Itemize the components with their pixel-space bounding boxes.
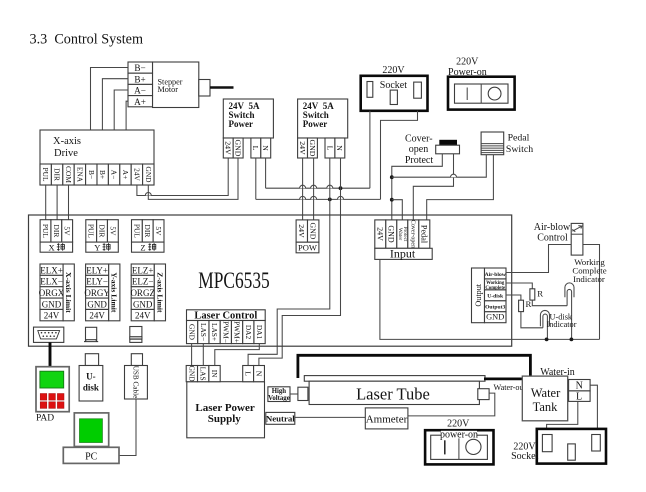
MPC power terminal 24V bbox=[296, 220, 307, 242]
wire high voltage to laser tube bbox=[290, 393, 298, 395]
MPC Z-axis limit terminal group bbox=[130, 264, 165, 321]
air-blow control label bbox=[534, 222, 571, 244]
USB cable connector stub bbox=[131, 354, 142, 366]
svg-text:A−: A− bbox=[110, 170, 119, 180]
svg-text:Ammeter: Ammeter bbox=[366, 413, 408, 425]
input terminal 24V bbox=[375, 220, 386, 248]
svg-text:POW: POW bbox=[298, 243, 317, 253]
laser control terminal DA2 bbox=[243, 321, 254, 344]
220V socket top bbox=[361, 65, 428, 111]
svg-text:ELX−: ELX− bbox=[40, 277, 63, 287]
wire switch2 24V to MPC POW bbox=[302, 158, 304, 220]
drive terminal COM bbox=[63, 164, 74, 185]
svg-text:N: N bbox=[254, 371, 263, 377]
svg-text:B+: B+ bbox=[134, 74, 145, 84]
wire pedal left to GND bus bbox=[392, 155, 487, 178]
output terminal Working Complete bbox=[485, 279, 507, 291]
MPC power group label POW bbox=[296, 242, 319, 253]
svg-text:GND: GND bbox=[308, 140, 317, 157]
X-axis drive box bbox=[40, 130, 154, 185]
resistor R1 bbox=[530, 288, 543, 300]
svg-text:GND: GND bbox=[309, 223, 318, 240]
output terminal Air-blow bbox=[485, 268, 507, 279]
svg-text:R: R bbox=[537, 288, 543, 298]
svg-text:GND: GND bbox=[144, 166, 153, 183]
wire laser control GND to supply bbox=[191, 344, 193, 366]
wire USB cable to PC bbox=[119, 399, 136, 456]
wire cover switch left to GND bus bbox=[392, 154, 443, 220]
drive terminal GND bbox=[143, 164, 154, 185]
laser tube top cap bbox=[304, 376, 485, 382]
air-blow valve bbox=[571, 223, 583, 255]
svg-text:ELY+: ELY+ bbox=[86, 265, 108, 275]
svg-text:Water-in: Water-in bbox=[540, 367, 575, 378]
svg-text:DIR: DIR bbox=[98, 225, 107, 238]
wire output working-complete to R1 bbox=[506, 283, 532, 289]
MPC USB port icon bbox=[130, 327, 142, 343]
switch power U3 box bbox=[298, 99, 348, 138]
svg-text:24V: 24V bbox=[298, 141, 307, 155]
svg-text:GND: GND bbox=[133, 299, 153, 309]
svg-text:ORGY: ORGY bbox=[84, 288, 110, 298]
wire R2 to lamp HL2 bbox=[521, 312, 543, 328]
svg-text:24V: 24V bbox=[135, 311, 151, 321]
laser control terminal DA1 bbox=[254, 321, 265, 344]
drive terminal A- bbox=[108, 164, 119, 185]
input terminal Pedal bbox=[419, 220, 430, 248]
wire R1 to lamp HL1 bbox=[532, 300, 567, 306]
MPC Y-axis terminal PUL bbox=[86, 220, 97, 242]
wire N bus bbox=[266, 185, 370, 188]
laser control title box bbox=[187, 310, 266, 322]
svg-text:DA2: DA2 bbox=[244, 325, 253, 340]
svg-text:ENA: ENA bbox=[75, 167, 84, 183]
bottom socket label bbox=[511, 441, 538, 462]
svg-text:IN: IN bbox=[210, 370, 219, 378]
svg-text:PUL: PUL bbox=[41, 168, 50, 182]
svg-text:U-: U- bbox=[86, 372, 96, 382]
svg-text:24V: 24V bbox=[376, 227, 385, 241]
svg-text:PWM+: PWM+ bbox=[233, 321, 242, 343]
laser power supply box bbox=[187, 382, 265, 438]
wire anode to ammeter bbox=[408, 393, 495, 416]
MPC Z-axis group label bbox=[132, 242, 165, 252]
svg-text:LAS−: LAS− bbox=[199, 323, 208, 341]
svg-text:USB Cable: USB Cable bbox=[131, 366, 139, 399]
svg-text:24V: 24V bbox=[89, 311, 105, 321]
switch power U3 terminal L bbox=[325, 138, 335, 158]
MPC Z-axis terminal 5V bbox=[153, 220, 164, 242]
svg-text:B−: B− bbox=[87, 170, 96, 179]
switch power U2 box bbox=[223, 99, 273, 138]
svg-text:220V: 220V bbox=[447, 419, 470, 430]
input terminal Cover-open bbox=[408, 220, 419, 248]
drive terminal B+ bbox=[97, 164, 108, 185]
working complete indicator label bbox=[572, 257, 606, 284]
MPC Z-axis terminal DIR bbox=[142, 220, 153, 242]
u-disk indicator label bbox=[547, 312, 577, 329]
MPC6535 label bbox=[198, 269, 269, 294]
MPC DB9 PAD port bbox=[34, 327, 64, 342]
wire laser control LAS- to supply bbox=[202, 344, 204, 366]
svg-text:Air-blow: Air-blow bbox=[485, 272, 507, 278]
wire output air-blow to valve line bbox=[506, 245, 600, 340]
water-in label bbox=[540, 367, 575, 378]
svg-text:24V: 24V bbox=[44, 311, 60, 321]
svg-text:24V: 24V bbox=[297, 224, 306, 238]
svg-text:Control: Control bbox=[537, 233, 568, 244]
svg-text:Pedal: Pedal bbox=[420, 225, 429, 244]
laser tube anode connector bbox=[478, 389, 489, 400]
220V power-on switch top bbox=[448, 56, 515, 109]
drive terminal B- bbox=[86, 164, 97, 185]
svg-text:220V: 220V bbox=[382, 65, 405, 76]
svg-text:X-axis Limit: X-axis Limit bbox=[64, 272, 73, 313]
wire L bus bbox=[256, 196, 381, 199]
svg-text:GND: GND bbox=[187, 366, 196, 383]
wire stepper A+ to drive bbox=[126, 101, 128, 164]
laser control terminal LAS- bbox=[198, 321, 209, 344]
svg-text:N: N bbox=[261, 145, 270, 151]
bottom power-on label bbox=[447, 419, 470, 430]
laser control terminal GND bbox=[187, 321, 198, 344]
wire tank L to socket bbox=[547, 401, 578, 434]
wire indicator 24V bus bbox=[380, 259, 600, 339]
wire laser control DA1 to supply IN bbox=[215, 344, 259, 366]
svg-text:DIR: DIR bbox=[53, 168, 62, 181]
switch power U2 terminal 24V bbox=[223, 138, 233, 158]
svg-text:U-disk: U-disk bbox=[487, 294, 504, 300]
svg-text:ORGX: ORGX bbox=[39, 288, 65, 298]
svg-text:5V: 5V bbox=[154, 226, 163, 236]
wire stepper B+ to drive bbox=[102, 79, 128, 164]
svg-text:ELY−: ELY− bbox=[86, 277, 108, 287]
wire socket right pin to L bus bbox=[381, 111, 418, 200]
svg-text:N: N bbox=[576, 380, 583, 391]
svg-text:open: open bbox=[409, 144, 428, 155]
USB cable box bbox=[125, 366, 148, 400]
water pipe bracket bbox=[298, 355, 531, 378]
wire switch1 L to L bus bbox=[255, 158, 257, 199]
svg-text:24V: 24V bbox=[224, 141, 233, 155]
laser control terminal PWM- bbox=[220, 321, 231, 344]
svg-text:Water-out: Water-out bbox=[494, 383, 527, 392]
svg-text:3.3 Control System: 3.3 Control System bbox=[30, 32, 144, 48]
svg-text:Power: Power bbox=[303, 119, 328, 129]
svg-text:Laser Power: Laser Power bbox=[195, 402, 254, 414]
svg-text:PUL: PUL bbox=[41, 224, 50, 238]
svg-text:GND: GND bbox=[234, 140, 243, 157]
MPC X-axis terminal 5V bbox=[62, 220, 73, 242]
wire switch1 N to N bus bbox=[265, 158, 267, 188]
svg-text:Output: Output bbox=[474, 283, 483, 306]
neutral box bbox=[266, 412, 295, 424]
wire drive COM to MPC bbox=[68, 185, 70, 220]
indicator lamp HL2 bbox=[540, 310, 549, 339]
switch power U2 terminal L bbox=[251, 138, 261, 158]
svg-text:Z: Z bbox=[140, 242, 145, 252]
drive terminal DIR bbox=[51, 164, 62, 185]
wire neutral to ammeter bbox=[295, 416, 366, 418]
indicator lamp HL1 bbox=[565, 283, 574, 340]
stepper terminal B- bbox=[128, 62, 153, 73]
laser supply terminal LAS bbox=[198, 366, 209, 382]
svg-text:Drive: Drive bbox=[54, 148, 78, 159]
svg-text:A−: A− bbox=[134, 86, 146, 96]
svg-text:ELX+: ELX+ bbox=[40, 265, 63, 275]
wire tank N to socket bbox=[590, 385, 597, 434]
svg-text:DA1: DA1 bbox=[255, 325, 264, 340]
svg-text:L: L bbox=[576, 392, 582, 403]
svg-text:Neutral: Neutral bbox=[266, 413, 295, 423]
svg-text:B−: B− bbox=[134, 63, 145, 73]
svg-text:X-axis: X-axis bbox=[53, 136, 81, 147]
output terminal U-disk bbox=[485, 290, 507, 301]
junction L bus / switch2 L bbox=[328, 198, 332, 202]
junction GND bus upper bbox=[390, 175, 394, 179]
PAD handheld controller bbox=[36, 367, 69, 412]
svg-text:R: R bbox=[526, 299, 532, 309]
wire GND bus to water-protect input bbox=[392, 200, 403, 220]
svg-text:Laser Control: Laser Control bbox=[194, 311, 257, 322]
svg-text:L: L bbox=[251, 146, 260, 151]
laser tube body bbox=[309, 381, 479, 404]
MPC power terminal GND bbox=[308, 220, 319, 242]
switch power U2 terminal GND bbox=[233, 138, 243, 158]
svg-text:Protect: Protect bbox=[405, 155, 434, 166]
laser control terminal LAS+ bbox=[209, 321, 220, 344]
svg-text:GND: GND bbox=[87, 299, 107, 309]
drive terminal 24V bbox=[131, 164, 142, 185]
svg-text:PAD: PAD bbox=[36, 413, 54, 423]
MPC monitor port icon bbox=[84, 327, 98, 341]
svg-text:ELZ+: ELZ+ bbox=[132, 265, 154, 275]
wire drive DIR to MPC bbox=[56, 185, 58, 220]
svg-text:power-on: power-on bbox=[440, 430, 478, 441]
wire MPC DB9 to PAD cable bbox=[49, 342, 52, 366]
svg-text:Voltage: Voltage bbox=[268, 395, 290, 402]
PC monitor bbox=[74, 413, 108, 447]
drive terminal PUL bbox=[40, 164, 51, 185]
svg-text:220V: 220V bbox=[456, 56, 479, 67]
laser supply terminal IN bbox=[209, 366, 220, 382]
220V power-on switch bottom bbox=[425, 430, 493, 464]
svg-text:disk: disk bbox=[83, 383, 99, 393]
PC base bbox=[63, 447, 119, 463]
wire output U-disk to R2 bbox=[506, 295, 521, 300]
water tank terminal L bbox=[569, 391, 591, 403]
svg-text:DIR: DIR bbox=[52, 225, 61, 238]
stepper terminal A- bbox=[128, 84, 153, 95]
MPC X-axis group label bbox=[40, 242, 73, 252]
switch power U3 terminal N bbox=[335, 138, 345, 158]
water tank box bbox=[522, 376, 567, 421]
svg-text:N: N bbox=[335, 145, 344, 151]
junction lamp HL2 on bus bbox=[545, 338, 549, 342]
water tank terminal N bbox=[569, 380, 591, 392]
svg-text:PUL: PUL bbox=[132, 224, 141, 238]
svg-text:ORGZ: ORGZ bbox=[130, 288, 155, 298]
MPC Y-axis terminal DIR bbox=[97, 220, 108, 242]
svg-text:High: High bbox=[272, 388, 287, 395]
cover-open protect label bbox=[405, 134, 434, 167]
svg-text:MPC6535: MPC6535 bbox=[198, 269, 269, 294]
laser control terminal PWM+ bbox=[231, 321, 242, 344]
svg-text:Motor: Motor bbox=[158, 85, 179, 94]
output group label bbox=[472, 268, 485, 323]
U-disk connector stub bbox=[85, 354, 98, 366]
ammeter box bbox=[365, 408, 408, 429]
svg-text:Water: Water bbox=[531, 386, 561, 400]
svg-text:Protect: Protect bbox=[402, 227, 408, 242]
stepper motor body bbox=[153, 62, 199, 108]
220V socket bottom bbox=[537, 429, 606, 464]
wire drive GND to switch power 1 bbox=[148, 158, 238, 199]
svg-text:L: L bbox=[243, 371, 252, 376]
wire stepper A- to drive bbox=[114, 90, 128, 164]
svg-text:Power: Power bbox=[229, 119, 254, 129]
svg-text:Laser Tube: Laser Tube bbox=[356, 384, 430, 403]
resistor R2 bbox=[519, 299, 532, 311]
drive terminal A+ bbox=[120, 164, 131, 185]
svg-text:GND: GND bbox=[188, 324, 197, 341]
svg-text:Output3: Output3 bbox=[485, 305, 505, 311]
svg-text:Supply: Supply bbox=[208, 413, 242, 425]
switch power U3 terminal GND bbox=[308, 138, 318, 158]
wire drive PUL to MPC bbox=[45, 185, 47, 220]
svg-text:PC: PC bbox=[85, 452, 98, 463]
svg-text:A+: A+ bbox=[134, 97, 146, 107]
svg-text:Input: Input bbox=[390, 247, 416, 261]
svg-text:Socket: Socket bbox=[380, 80, 407, 91]
wire socket left pin to N bus bbox=[369, 111, 371, 188]
drive terminal ENA bbox=[74, 164, 85, 185]
svg-text:GND: GND bbox=[42, 299, 62, 309]
title text bbox=[30, 32, 144, 48]
MPC Y-axis limit terminal group bbox=[84, 264, 120, 321]
cover-open switch bbox=[436, 140, 460, 154]
input terminal Water Protect bbox=[397, 220, 408, 248]
svg-text:24V: 24V bbox=[132, 168, 141, 181]
laser supply terminal GND bbox=[186, 366, 197, 383]
svg-text:LAS: LAS bbox=[199, 367, 208, 381]
svg-text:Y: Y bbox=[94, 242, 100, 252]
junction lamp HL1 on bus bbox=[570, 338, 574, 342]
MPC X-axis terminal DIR bbox=[51, 220, 62, 242]
svg-text:Z-axis Limit: Z-axis Limit bbox=[155, 272, 164, 313]
svg-text:GND: GND bbox=[387, 225, 396, 243]
wire drive 24V to switch power 1 bbox=[137, 158, 228, 196]
output terminal GND bbox=[485, 312, 507, 323]
bottom power-on text bbox=[440, 430, 478, 441]
wire switch2 N to laser supply N bbox=[259, 158, 341, 366]
wire pedal right to pedal input bbox=[427, 155, 494, 220]
U-disk box bbox=[79, 366, 103, 402]
laser tube cathode connector bbox=[298, 387, 308, 400]
laser supply terminal L bbox=[243, 366, 254, 382]
stepper terminal A+ bbox=[128, 96, 153, 107]
svg-text:Indicator: Indicator bbox=[547, 320, 577, 329]
svg-text:ELZ−: ELZ− bbox=[132, 277, 154, 287]
water-out label bbox=[494, 383, 527, 392]
svg-text:Switch: Switch bbox=[506, 144, 533, 155]
wire switch2 GND to MPC POW bbox=[313, 158, 315, 220]
svg-text:Cover-open: Cover-open bbox=[409, 220, 415, 248]
stepper motor shaft bbox=[199, 80, 234, 97]
junction N bus / switch2 N bbox=[339, 186, 343, 190]
svg-text:Air-blow: Air-blow bbox=[534, 222, 571, 233]
svg-text:L: L bbox=[325, 146, 334, 151]
switch power U3 terminal 24V bbox=[298, 138, 308, 158]
output terminal Output3 bbox=[485, 301, 507, 312]
MPC Y-axis group label bbox=[86, 242, 119, 252]
water-out pipe bbox=[484, 377, 522, 380]
svg-text:Indicator: Indicator bbox=[573, 274, 605, 284]
svg-text:DIR: DIR bbox=[143, 225, 152, 238]
svg-text:A+: A+ bbox=[121, 170, 130, 180]
svg-text:GND: GND bbox=[486, 313, 504, 322]
svg-text:Socket: Socket bbox=[511, 451, 538, 462]
MPC Z-axis terminal PUL bbox=[132, 220, 143, 242]
wire cover switch right to cover-open input bbox=[413, 154, 453, 220]
MPC6535 controller box bbox=[29, 215, 512, 346]
junction GND bus lower bbox=[390, 198, 394, 202]
svg-text:PWM−: PWM− bbox=[221, 321, 230, 343]
MPC X-axis terminal PUL bbox=[40, 220, 51, 242]
svg-text:COM: COM bbox=[64, 166, 73, 183]
pedal switch bbox=[481, 132, 533, 155]
svg-text:Y-axis Limit: Y-axis Limit bbox=[110, 272, 119, 312]
svg-text:B+: B+ bbox=[98, 170, 107, 179]
svg-text:Pedal: Pedal bbox=[508, 132, 530, 143]
svg-text:Cover-: Cover- bbox=[405, 134, 433, 145]
wire switch2 L to laser supply L bbox=[248, 158, 330, 366]
svg-text:5V: 5V bbox=[108, 226, 117, 236]
MPC X-axis limit terminal group bbox=[39, 264, 75, 321]
svg-text:LAS+: LAS+ bbox=[210, 323, 219, 341]
svg-text:X: X bbox=[49, 242, 55, 252]
high voltage box bbox=[268, 387, 290, 402]
PAD label bbox=[36, 413, 54, 423]
MPC Y-axis terminal 5V bbox=[107, 220, 118, 242]
wire stepper B- to drive bbox=[91, 68, 129, 165]
switch power U2 terminal N bbox=[261, 138, 271, 158]
svg-text:Tank: Tank bbox=[533, 400, 559, 414]
svg-text:5V: 5V bbox=[63, 226, 72, 236]
stepper terminal B+ bbox=[128, 73, 153, 84]
svg-text:PUL: PUL bbox=[87, 224, 96, 238]
laser supply terminal N bbox=[254, 366, 265, 382]
input terminal GND bbox=[386, 220, 397, 248]
input group label bbox=[375, 247, 432, 261]
